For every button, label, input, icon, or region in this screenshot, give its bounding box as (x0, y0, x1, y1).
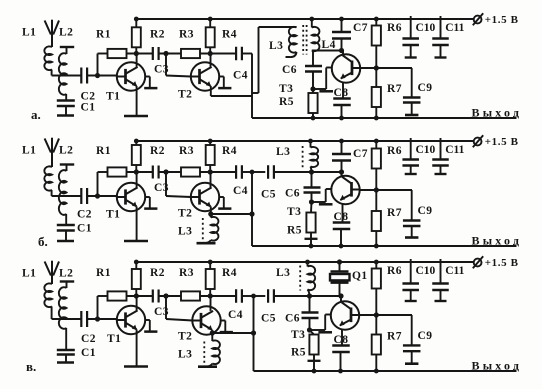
node collector T3 (row 1) (339, 48, 343, 52)
capacitor C8 (row 2) (342, 204, 344, 223)
inductor L1 (row 2) (44, 166, 52, 190)
collector wire T2 (row 3) (210, 296, 212, 311)
svg-text:R1: R1 (96, 267, 111, 279)
node collector T1 (row 3) (134, 294, 138, 298)
resistor R5 (row 3) (310, 330, 315, 335)
svg-text:C6: C6 (285, 188, 300, 200)
inductor L1 (row 3) (44, 283, 52, 307)
ground bar T1 (row 3) (124, 365, 148, 368)
resistor R6 (row 2) (375, 141, 377, 149)
wire input tap (row 2) (52, 195, 82, 197)
inductor L4 secondary (row 1) (311, 19, 313, 28)
svg-text:C11: C11 (445, 22, 464, 34)
svg-text:L3: L3 (178, 226, 192, 238)
wire to C5 (row 2) (252, 171, 265, 173)
bottom ground rail (row 3) (254, 370, 517, 372)
svg-text:L3: L3 (276, 267, 290, 279)
emitter output line T3 (row 1) (360, 67, 412, 69)
node collector T1 (row 1) (134, 51, 138, 55)
capacitor C1 (row 1) (57, 99, 75, 101)
svg-text:R6: R6 (387, 265, 402, 277)
collector wire T2 (row 2) (210, 172, 212, 187)
ground bar under emitter coil (row 2) (197, 242, 216, 245)
node after C3 (row 1) (164, 51, 168, 55)
wire fb to C3 (row 1) (127, 53, 154, 55)
svg-text:T1: T1 (106, 91, 120, 103)
svg-text:C1: C1 (77, 223, 92, 235)
wire C5 to collector node (row 3) (274, 295, 341, 297)
bottom ground rail (row 2) (252, 245, 517, 247)
base lead T3 (row 1) (325, 68, 327, 90)
collector wire T3 (row 1) (342, 51, 344, 56)
base lead T3 (row 2) (325, 189, 327, 202)
resistor R7 (row 1) (375, 68, 377, 87)
capacitor C8 (row 1) (342, 82, 344, 98)
ground mark right of T2 (row 1) (219, 76, 224, 78)
wire base-node up (row 3) (97, 296, 99, 319)
capacitor C11 (row 2) (440, 138, 442, 160)
svg-text:T2: T2 (178, 208, 192, 220)
capacitor C5 (row 3) (267, 289, 269, 303)
svg-text:R5: R5 (291, 347, 306, 359)
svg-text:L3: L3 (178, 349, 192, 361)
capacitor C9 (row 2) (411, 190, 413, 221)
collector wire T1 (row 3) (136, 296, 138, 310)
inductor L1 (row 1) (44, 46, 52, 70)
svg-text:R7: R7 (387, 331, 402, 343)
wire fb to C3 (row 3) (127, 295, 154, 297)
capacitor C3 (row 3) (152, 290, 154, 303)
svg-text:б.: б. (38, 234, 48, 249)
ground mark right of T2 (row 3) (221, 320, 226, 322)
wire base-node up (row 2) (97, 172, 99, 196)
svg-text:R3: R3 (179, 267, 194, 279)
wire to L3 top (row 1) (258, 27, 260, 93)
svg-text:T1: T1 (106, 209, 120, 221)
node L3/C6 (row 3) (307, 294, 311, 298)
svg-text:R6: R6 (387, 145, 402, 157)
wire C2 to base node (row 1) (87, 75, 117, 77)
emitter output line T3 (row 3) (359, 314, 412, 316)
capacitor C4 (row 1) (235, 47, 237, 61)
wire C4 down to rail (row 1) (242, 53, 252, 55)
ground bar under C1 (row 2) (57, 240, 74, 243)
svg-text:Выход: Выход (472, 106, 523, 120)
capacitor C3 (row 1) (152, 47, 154, 60)
ground bar T3 base (row 1) (319, 90, 333, 93)
tick under R5 (row 3) (308, 360, 321, 362)
wire fb to C3 (row 2) (127, 171, 154, 173)
wire to C5 (row 3) (254, 295, 266, 297)
svg-text:R5: R5 (287, 225, 302, 237)
svg-text:C11: C11 (445, 144, 464, 156)
svg-text:в.: в. (26, 359, 36, 374)
inductor L2 (row 3) (60, 280, 74, 282)
resistor R1 feedback (row 2) (108, 167, 127, 176)
wire fb2 to C4 (row 1) (200, 53, 236, 55)
svg-text:T3: T3 (291, 329, 305, 341)
svg-text:C5: C5 (261, 313, 276, 325)
svg-text:C6: C6 (282, 64, 297, 76)
capacitor C5 (row 2) (267, 165, 269, 179)
svg-text:R2: R2 (150, 28, 165, 40)
capacitor C3 (row 2) (152, 166, 154, 179)
capacitor C7 (row 2) (341, 141, 343, 154)
collector wire T1 (row 2) (136, 172, 138, 187)
wire fb2 to C4 (row 2) (200, 171, 236, 173)
collector wire T1 (row 1) (136, 54, 138, 67)
node collector T2 (row 3) (208, 294, 212, 298)
emitter wire T1 (row 3) (136, 329, 138, 366)
node R5 (row 3) (307, 328, 311, 332)
wire node to T3 base (row 1) (313, 88, 326, 90)
ground bar C9 (row 1) (405, 114, 418, 117)
svg-text:R7: R7 (387, 83, 402, 95)
ground bar under C1 (row 1) (57, 114, 74, 117)
ground bar T3 base (row 3) (318, 331, 332, 334)
emitter wire T1 (row 1) (136, 86, 138, 116)
transformer core (row 1) (302, 25, 304, 55)
core of L3 (row 3) (299, 266, 301, 291)
wire node to T3 base (row 2) (312, 201, 326, 203)
svg-text:C7: C7 (353, 148, 368, 160)
ground mark right of T2 (row 2) (219, 196, 224, 198)
wire C6 to node (row 2) (311, 193, 313, 203)
inductor L3 at T2 emitter (row 2) (211, 217, 219, 241)
svg-text:Выход: Выход (472, 234, 523, 248)
crystal Q1 (row 3) (339, 262, 341, 272)
svg-text:L1: L1 (22, 268, 36, 280)
node R6R7 (row 1) (374, 66, 378, 70)
resistor R7 (row 3) (375, 315, 377, 335)
capacitor C2 (row 2) (80, 188, 82, 204)
resistor R2 vertical (row 3) (135, 262, 137, 269)
ground bar C9 (row 3) (405, 362, 418, 365)
inductor L3 (row 2) (310, 141, 312, 148)
svg-text:R3: R3 (179, 145, 194, 157)
collector wire T3 (row 3) (340, 296, 342, 303)
antenna WA3 (45, 262, 51, 276)
node collector T3 (row 2) (339, 170, 343, 174)
resistor R7 (row 2) (375, 190, 377, 211)
collector wire T2 (row 1) (210, 54, 212, 67)
svg-text:а.: а. (31, 107, 41, 122)
wire fb2 to C4 (row 3) (200, 295, 236, 297)
svg-text:C9: C9 (418, 330, 433, 342)
resistor R1 feedback (row 1) (108, 49, 127, 58)
emitter wire T1 (row 2) (136, 206, 138, 240)
ground bar T3 base (row 2) (319, 203, 333, 206)
resistor R6 (row 1) (375, 19, 377, 26)
resistor R4 vertical (row 2) (209, 141, 211, 145)
resistor R1 feedback (row 3) (108, 291, 127, 300)
svg-text:R1: R1 (96, 145, 111, 157)
node R6R7 (row 2) (374, 188, 378, 192)
node R6R7 (row 3) (374, 313, 378, 317)
node L3/C6 (row 2) (309, 170, 313, 174)
svg-text:T2: T2 (178, 89, 192, 101)
core of emitter coil (row 3) (203, 342, 205, 366)
svg-text:R4: R4 (222, 145, 237, 157)
capacitor C2 (row 3) (80, 311, 82, 327)
emitter output line T3 (row 2) (360, 189, 412, 191)
node R5 (row 1) (311, 87, 315, 91)
svg-text:R4: R4 (222, 28, 237, 40)
svg-text:C1: C1 (81, 102, 96, 114)
svg-text:+1.5 B: +1.5 B (485, 136, 519, 148)
svg-text:C10: C10 (416, 22, 436, 34)
transistor T1 (row 3) (117, 306, 145, 334)
svg-text:C8: C8 (334, 87, 349, 99)
svg-text:R1: R1 (96, 28, 111, 40)
svg-text:Q1: Q1 (352, 270, 368, 282)
ground mark right of T1 (row 3) (145, 319, 150, 321)
svg-text:C6: C6 (285, 313, 300, 325)
svg-text:L2: L2 (59, 268, 73, 280)
inductor L2 (row 2) (60, 163, 74, 165)
svg-text:T3: T3 (287, 206, 301, 218)
svg-text:T2: T2 (178, 331, 192, 343)
wire L4 to collector node (row 1) (312, 50, 343, 52)
svg-text:C9: C9 (418, 82, 433, 94)
wire C2 to base node (row 2) (87, 195, 117, 197)
svg-text:C11: C11 (445, 265, 464, 277)
resistor R2 vertical (row 2) (135, 141, 137, 145)
supply terminal (row 2) (474, 138, 482, 146)
svg-text:L1: L1 (22, 27, 36, 39)
wire C6 to node (row 3) (309, 318, 311, 330)
svg-text:C4: C4 (233, 70, 248, 82)
wire to C6 (row 2) (311, 172, 313, 188)
resistor R3 feedback (row 2) (181, 167, 200, 176)
node R5 (row 2) (309, 200, 313, 204)
capacitor C10 (row 1) (410, 16, 412, 39)
supply terminal (row 3) (474, 259, 482, 267)
transistor T2 (row 1) (191, 62, 219, 90)
wire to C6 (row 3) (309, 296, 311, 313)
capacitor C1 (row 2) (57, 224, 75, 226)
svg-text:R6: R6 (387, 22, 402, 34)
svg-text:C8: C8 (334, 334, 349, 346)
emitter wire T2 (row 1) (210, 86, 212, 96)
svg-text:R2: R2 (150, 145, 165, 157)
resistor R3 feedback (row 1) (181, 49, 200, 58)
capacitor C6 (row 3) (302, 311, 319, 313)
resistor R6 (row 3) (375, 262, 377, 269)
svg-text:T1: T1 (107, 333, 121, 345)
svg-text:C1: C1 (81, 347, 96, 359)
wire C3 to T2 base (row 3) (158, 295, 181, 297)
resistor R5 (row 2) (310, 202, 313, 213)
capacitor C9 (row 3) (411, 315, 413, 345)
capacitor C4 (row 2) (235, 165, 237, 179)
svg-text:C2: C2 (77, 209, 92, 221)
svg-text:+1.5 B: +1.5 B (485, 257, 519, 269)
capacitor C10 (row 2) (410, 138, 412, 160)
inductor L3 (row 3) (307, 262, 309, 267)
wire base-node up (row 1) (97, 54, 99, 76)
node base T1 (row 3) (95, 317, 99, 321)
capacitor C4 (row 3) (235, 289, 237, 303)
svg-text:C10: C10 (416, 144, 436, 156)
svg-text:L3: L3 (276, 146, 290, 158)
capacitor C6 (row 1) (305, 65, 322, 67)
ground bar C9 (row 2) (405, 236, 418, 239)
svg-text:C10: C10 (416, 265, 436, 277)
capacitor C6 (row 2) (304, 186, 321, 188)
capacitor C1 (row 3) (57, 349, 75, 351)
svg-text:R2: R2 (150, 267, 165, 279)
capacitor C9 (row 1) (411, 68, 413, 98)
svg-text:C8: C8 (334, 211, 349, 223)
transistor T3 (row 1) (332, 54, 360, 82)
capacitor C2 (row 1) (80, 68, 82, 84)
svg-text:+1.5 B: +1.5 B (485, 14, 519, 26)
resistor R4 vertical (row 3) (209, 262, 211, 269)
emitter coil path (row 3) (211, 333, 213, 341)
emitter wire T2 (row 3) (211, 330, 213, 333)
svg-text:C5: C5 (261, 189, 276, 201)
svg-text:T3: T3 (279, 83, 293, 95)
wire C4 down to rail (row 2) (242, 171, 252, 173)
svg-text:R3: R3 (179, 28, 194, 40)
svg-text:C4: C4 (233, 185, 248, 197)
svg-text:C7: C7 (353, 22, 368, 34)
node base T1 (row 2) (95, 194, 99, 198)
core of emitter coil (row 2) (202, 218, 204, 242)
wire C2 to base node (row 3) (87, 318, 117, 320)
node after C3 (row 2) (164, 170, 168, 174)
ground bar T1 (row 1) (124, 115, 148, 118)
svg-text:L4: L4 (322, 39, 336, 51)
collector wire T3 (row 2) (341, 172, 343, 177)
transistor T3 (row 3) (331, 301, 359, 329)
transistor T1 (row 2) (117, 183, 145, 211)
svg-text:L2: L2 (59, 27, 73, 39)
node collector T2 (row 2) (208, 170, 212, 174)
node after C3 (row 3) (164, 294, 168, 298)
wire C3 to T2 base (row 1) (158, 53, 181, 55)
wire node to T3 base (row 3) (310, 329, 326, 331)
capacitor C8 (row 3) (341, 329, 343, 345)
base lead T3 (row 3) (324, 315, 326, 331)
wire input tap (row 3) (52, 318, 82, 320)
resistor R3 feedback (row 3) (181, 291, 200, 300)
ground mark right of T1 (row 1) (145, 76, 150, 78)
node collector T1 (row 2) (134, 170, 138, 174)
capacitor C11 (row 1) (440, 16, 442, 39)
node collector T2 (row 1) (208, 51, 212, 55)
capacitor C7 (row 1) (341, 19, 343, 32)
tick under R5 (row 2) (305, 238, 318, 240)
wire C3 to T2 base (row 2) (158, 171, 181, 173)
ground bar under emitter coil (row 3) (198, 365, 217, 368)
supply terminal (row 1) (474, 16, 482, 24)
inductor L3 at T2 emitter (row 3) (212, 340, 220, 364)
resistor R2 vertical (row 1) (135, 19, 137, 27)
inductor L3 primary (row 1) (289, 27, 297, 53)
svg-text:R7: R7 (387, 207, 402, 219)
svg-text:L2: L2 (59, 145, 73, 157)
top supply rail (row 1) (136, 18, 474, 20)
node base T1 (row 1) (95, 73, 99, 77)
ground bar T1 (row 2) (124, 240, 148, 243)
ground mark right of T1 (row 2) (145, 196, 150, 198)
transistor T2 (row 2) (191, 183, 219, 211)
node collector T3 (row 3) (339, 294, 343, 298)
core of L3 (row 2) (302, 146, 304, 168)
inductor L2 (row 1) (60, 46, 74, 48)
resistor R5 (row 1) (312, 89, 314, 93)
capacitor C10 (row 3) (410, 259, 412, 284)
svg-text:C2: C2 (81, 333, 96, 345)
svg-text:L3: L3 (269, 40, 283, 52)
wire to C6 (row 1) (312, 51, 314, 67)
svg-text:Выход: Выход (472, 359, 523, 373)
top supply rail (row 3) (136, 261, 474, 263)
antenna WA1 (45, 21, 51, 35)
transistor T2 (row 3) (192, 306, 220, 334)
bottom ground rail (row 1) (252, 117, 517, 119)
svg-text:R4: R4 (222, 267, 237, 279)
svg-text:L1: L1 (22, 145, 36, 157)
wire C4 down to rail (row 3) (242, 295, 253, 297)
transistor T1 (row 1) (117, 62, 145, 90)
svg-text:C4: C4 (228, 309, 243, 321)
svg-text:R5: R5 (279, 96, 294, 108)
transistor T3 (row 2) (331, 176, 359, 204)
emitter wire T2 (row 2) (210, 206, 212, 214)
resistor R4 vertical (row 1) (209, 19, 211, 27)
emitter coil path (row 2) (210, 214, 212, 218)
capacitor C11 (row 3) (440, 259, 442, 284)
antenna WA2 (45, 139, 51, 153)
ground bar under C1 (row 3) (57, 361, 74, 364)
wire C6 to node (row 1) (312, 72, 314, 90)
svg-text:C9: C9 (418, 205, 433, 217)
wire C5 to collector node (row 2) (274, 171, 341, 173)
top supply rail (row 2) (136, 140, 474, 142)
wire input tap (row 1) (52, 75, 82, 77)
